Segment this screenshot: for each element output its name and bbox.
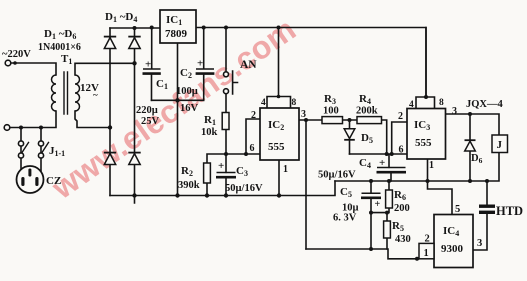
svg-text:3: 3 (452, 106, 457, 117)
svg-text:CZ: CZ (46, 175, 61, 187)
svg-text:100: 100 (323, 106, 339, 117)
svg-text:390k: 390k (178, 180, 200, 191)
svg-text:HTD: HTD (496, 204, 523, 218)
svg-text:200: 200 (394, 203, 410, 214)
svg-text:25V: 25V (141, 116, 160, 127)
svg-text:5: 5 (455, 204, 460, 215)
svg-text:1: 1 (429, 160, 434, 171)
svg-text:16V: 16V (180, 103, 199, 114)
svg-text:50µ/16V: 50µ/16V (318, 170, 356, 181)
svg-text:1: 1 (283, 164, 288, 175)
svg-text:+: + (375, 199, 381, 210)
svg-text:430: 430 (395, 234, 411, 245)
svg-text:8: 8 (439, 98, 444, 108)
svg-text:1N4001×6: 1N4001×6 (38, 42, 81, 53)
svg-text:4: 4 (261, 98, 266, 108)
svg-text:3: 3 (301, 109, 306, 120)
svg-text:D1 ~D4: D1 ~D4 (105, 11, 137, 24)
svg-text:J: J (497, 139, 503, 151)
svg-text:555: 555 (415, 137, 432, 149)
svg-text:555: 555 (268, 141, 285, 153)
svg-text:200k: 200k (356, 106, 378, 117)
svg-text:D1 ~D6: D1 ~D6 (44, 28, 76, 41)
svg-text:6. 3V: 6. 3V (333, 213, 357, 224)
svg-text:50µ/16V: 50µ/16V (225, 183, 263, 194)
svg-text:~220V: ~220V (2, 49, 31, 60)
svg-text:6: 6 (250, 143, 255, 154)
svg-text:+: + (218, 160, 224, 172)
svg-text:AN: AN (240, 59, 257, 71)
svg-text:220µ: 220µ (136, 105, 158, 116)
svg-text:10k: 10k (201, 127, 218, 138)
svg-text:+: + (197, 58, 203, 70)
svg-text:9300: 9300 (441, 243, 464, 255)
svg-text:6: 6 (399, 145, 404, 156)
svg-text:+: + (379, 157, 385, 169)
svg-text:4: 4 (409, 100, 414, 110)
svg-text:1: 1 (424, 248, 429, 259)
svg-text:2: 2 (425, 234, 430, 245)
svg-text:JQX—4: JQX—4 (466, 99, 504, 110)
svg-text:8: 8 (292, 98, 297, 108)
svg-text:2: 2 (398, 111, 403, 122)
svg-text:2: 2 (251, 110, 256, 121)
svg-text:100µ: 100µ (176, 86, 198, 97)
svg-text:+: + (145, 59, 151, 71)
svg-text:3: 3 (477, 238, 482, 249)
svg-text:7809: 7809 (165, 28, 188, 40)
svg-text:~: ~ (93, 90, 98, 100)
